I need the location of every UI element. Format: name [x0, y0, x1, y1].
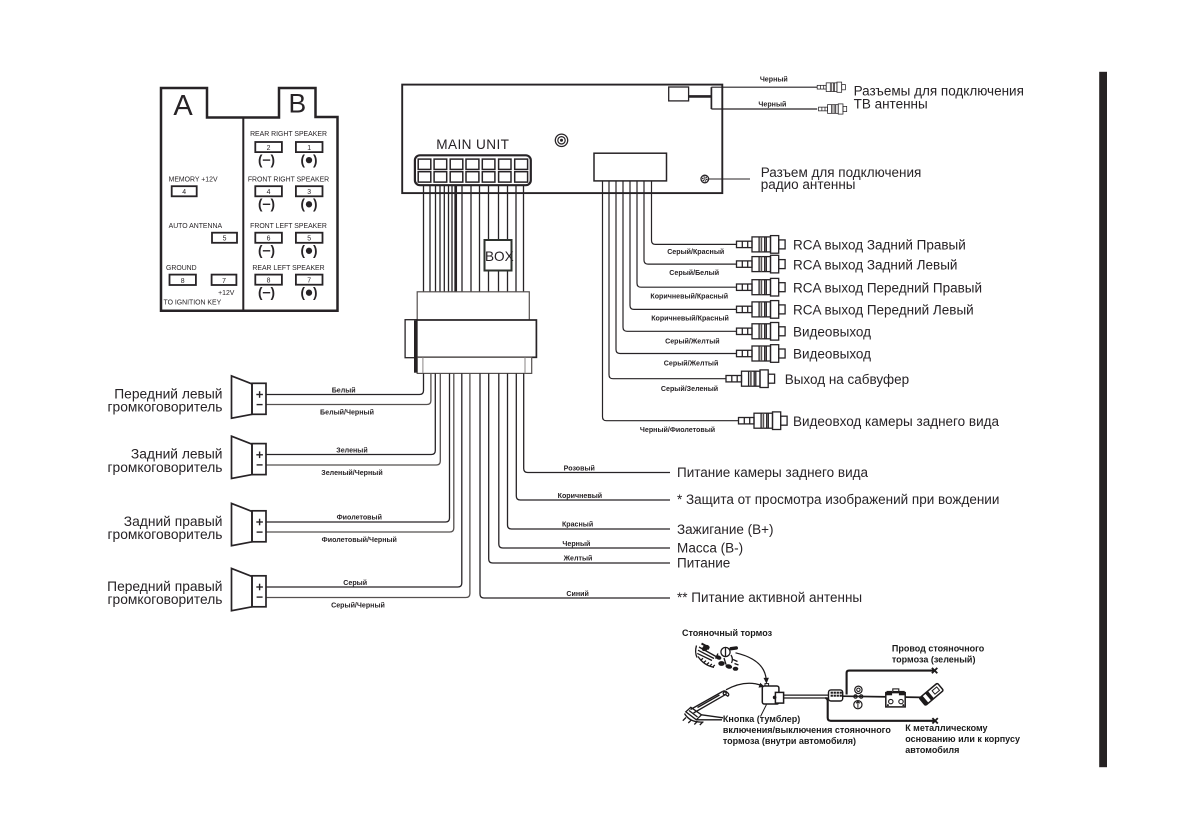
svg-text:Красный: Красный	[562, 521, 593, 529]
RCA wire row 2 Серый/Белый	[644, 181, 737, 277]
ISO connector block A/B outline	[161, 88, 338, 311]
svg-text:FRONT RIGHT SPEAKER: FRONT RIGHT SPEAKER	[248, 177, 329, 184]
RCA plug row 7	[726, 370, 775, 388]
RCA caption row 3	[793, 280, 982, 295]
svg-text:ТВ антенны: ТВ антенны	[854, 97, 928, 112]
TV tuner module on chassis	[669, 87, 712, 109]
svg-text:B: B	[288, 89, 306, 119]
svg-text:Питание: Питание	[677, 555, 730, 570]
svg-text:): )	[313, 197, 318, 212]
B row 3: FRONT LEFT SPEAKER pins 6/5	[250, 223, 327, 258]
svg-text:тормоза (зеленый): тормоза (зеленый)	[892, 655, 976, 665]
harness connector lower step	[417, 357, 532, 373]
svg-text:RCA выход Передний Правый: RCA выход Передний Правый	[793, 280, 982, 295]
B row 1: REAR RIGHT SPEAKER pins 2/1	[250, 131, 327, 168]
svg-text:Черный: Черный	[760, 76, 788, 84]
svg-text:RCA выход Передний Левый: RCA выход Передний Левый	[793, 303, 974, 318]
green wire branch up	[847, 668, 938, 695]
svg-text:Синий: Синий	[566, 590, 589, 598]
power wire Розовый	[524, 373, 670, 472]
svg-text:A: A	[173, 90, 193, 122]
svg-text:): )	[313, 152, 318, 167]
RCA plug row 3	[737, 278, 786, 296]
svg-text:): )	[270, 285, 275, 300]
svg-text:(: (	[301, 152, 306, 167]
svg-text:): )	[313, 243, 318, 258]
chassis eyelet plug	[919, 683, 944, 706]
power wire Синий	[480, 373, 670, 598]
svg-text:Зажигание (B+): Зажигание (B+)	[677, 522, 774, 537]
RCA caption row 4	[793, 303, 974, 318]
speaker wire rear-left + (Зеленый)	[266, 373, 435, 454]
svg-text:5: 5	[223, 236, 227, 243]
caption ground B-	[677, 540, 743, 555]
svg-text:Серый: Серый	[343, 579, 367, 587]
RCA caption row 1	[793, 238, 966, 253]
speaker rear right caption	[108, 514, 223, 542]
svg-text:Видеовыход: Видеовыход	[793, 325, 871, 340]
svg-text:MAIN UNIT: MAIN UNIT	[436, 137, 509, 152]
RCA caption row 5	[793, 325, 871, 340]
svg-text:Серый/Зеленый: Серый/Зеленый	[661, 385, 718, 393]
parking brake title	[682, 628, 773, 638]
radio antenna leader line	[709, 178, 751, 180]
RCA wire row 5 Серый/Желтый	[623, 181, 737, 346]
caption rear camera power	[677, 465, 869, 480]
speaker wire front-right + (Серый)	[266, 373, 462, 587]
svg-text:7: 7	[307, 278, 311, 285]
arrow from lever to switch	[736, 653, 769, 684]
svg-text:Белый/Черный: Белый/Черный	[320, 409, 374, 417]
svg-text:Желтый: Желтый	[563, 555, 593, 563]
wire loom from 14-pin connector to harness plug	[424, 185, 524, 292]
black side bar	[1099, 72, 1107, 767]
svg-text:8: 8	[267, 278, 271, 285]
svg-text:Серый/Белый: Серый/Белый	[669, 269, 719, 277]
speaker front right icon	[232, 568, 267, 610]
svg-text:2: 2	[267, 145, 271, 152]
twin lead from switch	[784, 695, 829, 698]
inline connector	[829, 690, 843, 701]
speaker rear left caption	[108, 447, 223, 475]
svg-text:Белый: Белый	[332, 386, 356, 394]
svg-text:7: 7	[222, 278, 226, 285]
svg-text:Фиолетовый/Черный: Фиолетовый/Черный	[322, 536, 397, 544]
svg-text:8: 8	[181, 278, 185, 285]
RCA plug row 2	[737, 255, 786, 273]
svg-text:радио антенны: радио антенны	[761, 177, 856, 192]
svg-text:): )	[313, 285, 318, 300]
svg-text:включения/выключения стояночно: включения/выключения стояночного	[723, 725, 891, 735]
svg-text:): )	[270, 152, 275, 167]
RCA wire row 4 Коричневый/Красный	[630, 181, 737, 323]
RCA wire row 1 Серый/Красный	[652, 181, 737, 256]
svg-text:Коричневый: Коричневый	[558, 492, 603, 500]
svg-text:(: (	[258, 197, 263, 212]
svg-text:RCA выход Задний Левый: RCA выход Задний Левый	[793, 257, 957, 272]
svg-text:GROUND: GROUND	[166, 265, 197, 272]
svg-text:тормоза (внутри автомобиля): тормоза (внутри автомобиля)	[723, 736, 856, 746]
svg-text:(: (	[301, 197, 306, 212]
screw and lamp symbols	[854, 686, 863, 709]
RCA plug row 8	[739, 412, 788, 430]
harness connector left cap	[405, 320, 417, 358]
svg-text:(: (	[301, 243, 306, 258]
svg-text:TO IGNITION KEY: TO IGNITION KEY	[164, 300, 222, 307]
svg-text:громкоговоритель: громкоговоритель	[108, 527, 223, 542]
svg-text:Видеовыход: Видеовыход	[793, 347, 871, 362]
RCA wire row 3 Коричневый/Красный	[637, 181, 737, 301]
svg-text:(: (	[301, 285, 306, 300]
svg-text:5: 5	[307, 236, 311, 243]
harness connector body	[417, 320, 537, 357]
speaker wire rear-left - (Зеленый/Черный)	[266, 373, 440, 477]
caption switch	[723, 714, 891, 746]
caption parking guard	[677, 492, 999, 507]
radio antenna caption	[761, 165, 922, 192]
svg-text:Видеовход камеры заднего вида: Видеовход камеры заднего вида	[793, 414, 1000, 429]
svg-text:автомобиля: автомобиля	[905, 745, 959, 755]
speaker wire rear-right - (Фиолетовый/Черный)	[266, 373, 454, 544]
main earth wire	[843, 696, 929, 697]
foot pedal sketch	[683, 691, 729, 725]
svg-text:REAR RIGHT SPEAKER: REAR RIGHT SPEAKER	[250, 131, 327, 138]
power wire Красный	[508, 373, 671, 529]
svg-text:Фиолетовый: Фиолетовый	[337, 514, 382, 522]
hand brake lever sketch	[696, 644, 739, 671]
svg-text:Серый/Красный: Серый/Красный	[667, 248, 724, 256]
A pin MEMORY +12V pin 4	[169, 177, 218, 197]
svg-text:громкоговоритель: громкоговоритель	[108, 400, 223, 415]
svg-text:Черный/Фиолетовый: Черный/Фиолетовый	[640, 426, 715, 434]
switch leader line	[761, 705, 767, 717]
connector A label	[173, 90, 193, 122]
power wire Черный	[499, 373, 670, 548]
speaker wire front-left - (Белый/Черный)	[266, 373, 431, 416]
svg-text:3: 3	[307, 189, 311, 196]
svg-text:4: 4	[267, 189, 271, 196]
RCA wire row 8 Черный/Фиолетовый rear camera	[603, 181, 739, 434]
speaker wire front-right - (Серый/Черный)	[266, 373, 470, 609]
caption chassis ground	[905, 723, 1020, 755]
RCA caption row 2	[793, 257, 957, 272]
screw head on chassis	[555, 134, 567, 146]
RCA plug row 6	[737, 345, 786, 363]
svg-text:AUTO ANTENNA: AUTO ANTENNA	[169, 223, 223, 230]
svg-text:Черный: Черный	[758, 101, 786, 109]
svg-text:громкоговоритель: громкоговоритель	[108, 460, 223, 475]
RCA wire row 6 Серый/Желтый	[616, 181, 737, 368]
svg-text:Коричневый/Красный: Коричневый/Красный	[650, 293, 728, 301]
caption active antenna power	[677, 590, 862, 605]
speaker wire front-left + (Белый)	[266, 373, 424, 394]
RCA pigtail connector on main unit	[594, 153, 667, 181]
svg-text:** Питание активной антенны: ** Питание активной антенны	[677, 590, 862, 605]
speaker rear right icon	[232, 503, 267, 545]
harness connector upper shell	[417, 292, 529, 320]
svg-text:+12V: +12V	[218, 290, 235, 297]
svg-text:MEMORY +12V: MEMORY +12V	[169, 177, 218, 184]
RCA caption row 8	[793, 414, 1000, 429]
svg-text:Масса (B-): Масса (B-)	[677, 540, 743, 555]
parking brake switch	[762, 684, 783, 704]
connector B label	[288, 89, 306, 119]
svg-text:Черный: Черный	[562, 540, 590, 548]
svg-text:(: (	[258, 152, 263, 167]
svg-text:громкоговоритель: громкоговоритель	[108, 592, 223, 607]
TV antenna plug 2	[819, 104, 847, 114]
speaker front right caption	[107, 579, 222, 607]
svg-text:Коричневый/Красный: Коричневый/Красный	[651, 315, 729, 323]
svg-text:Зеленый: Зеленый	[336, 446, 367, 454]
power wire Коричневый	[516, 373, 670, 500]
svg-text:6: 6	[267, 236, 271, 243]
speaker wire rear-right + (Фиолетовый)	[266, 373, 450, 522]
svg-text:Зеленый/Черный: Зеленый/Черный	[321, 469, 382, 477]
svg-text:4: 4	[182, 189, 186, 196]
svg-text:* Защита от просмотра изображе: * Защита от просмотра изображений при во…	[677, 492, 999, 507]
svg-text:Серый/Желтый: Серый/Желтый	[664, 360, 719, 368]
svg-text:Питание камеры заднего вида: Питание камеры заднего вида	[677, 465, 869, 480]
svg-text:REAR LEFT SPEAKER: REAR LEFT SPEAKER	[252, 265, 324, 272]
svg-text:Серый/Черный: Серый/Черный	[331, 602, 385, 610]
caption ignition B+	[677, 522, 774, 537]
caption green parking wire	[892, 644, 985, 665]
relay box	[886, 689, 905, 707]
svg-text:К металлическому: К металлическому	[905, 723, 987, 733]
svg-text:(: (	[258, 243, 263, 258]
BOX inline module	[485, 240, 514, 271]
radio antenna jack	[701, 175, 709, 183]
svg-text:Стояночный тормоз: Стояночный тормоз	[682, 628, 773, 638]
caption power	[677, 555, 730, 570]
speaker front left caption	[108, 386, 223, 414]
RCA caption row 7	[785, 372, 909, 387]
MAIN UNIT label	[436, 137, 509, 152]
speaker rear left icon	[232, 436, 267, 478]
svg-text:основанию или к корпусу: основанию или к корпусу	[905, 734, 1020, 744]
svg-text:Провод стояночного: Провод стояночного	[892, 644, 985, 654]
RCA plug row 5	[737, 323, 786, 341]
RCA plug row 4	[737, 301, 786, 319]
main unit chassis	[402, 85, 722, 194]
svg-text:Розовый: Розовый	[564, 464, 595, 472]
A pin GROUND pin 8 and +12V pin 7	[164, 265, 237, 307]
14-pin connector on main unit	[415, 155, 531, 185]
RCA wire row 7 Серый/Зеленый subwoofer	[609, 181, 726, 393]
harness black key stripe	[414, 320, 417, 372]
svg-text:FRONT LEFT SPEAKER: FRONT LEFT SPEAKER	[250, 223, 327, 230]
RCA caption row 6	[793, 347, 871, 362]
svg-text:1: 1	[307, 145, 311, 152]
power wire Желтый	[489, 373, 670, 563]
svg-text:Кнопка (тумблер): Кнопка (тумблер)	[723, 714, 800, 724]
arrow from pedal to switch	[726, 683, 765, 690]
TV antenna wire 1 (Черный)	[711, 76, 817, 88]
RCA plug row 1	[737, 236, 786, 254]
svg-text:Серый/Желтый: Серый/Желтый	[665, 338, 720, 346]
speaker front left icon	[232, 376, 267, 418]
B row 4: REAR LEFT SPEAKER pins 8/7	[252, 265, 324, 300]
A pin AUTO ANTENNA pin 5	[169, 223, 237, 243]
B row 2: FRONT RIGHT SPEAKER pins 4/3	[248, 177, 329, 212]
TV antenna caption	[854, 84, 1024, 112]
svg-text:RCA выход Задний Правый: RCA выход Задний Правый	[793, 238, 966, 253]
svg-text:BOX: BOX	[485, 249, 514, 264]
svg-text:Выход на сабвуфер: Выход на сабвуфер	[785, 372, 909, 387]
TV antenna wire 2 (Черный)	[711, 101, 817, 109]
svg-text:(: (	[258, 285, 263, 300]
ground branch down	[825, 698, 937, 724]
svg-text:): )	[270, 243, 275, 258]
TV antenna plug 1	[817, 82, 845, 92]
svg-text:): )	[270, 197, 275, 212]
